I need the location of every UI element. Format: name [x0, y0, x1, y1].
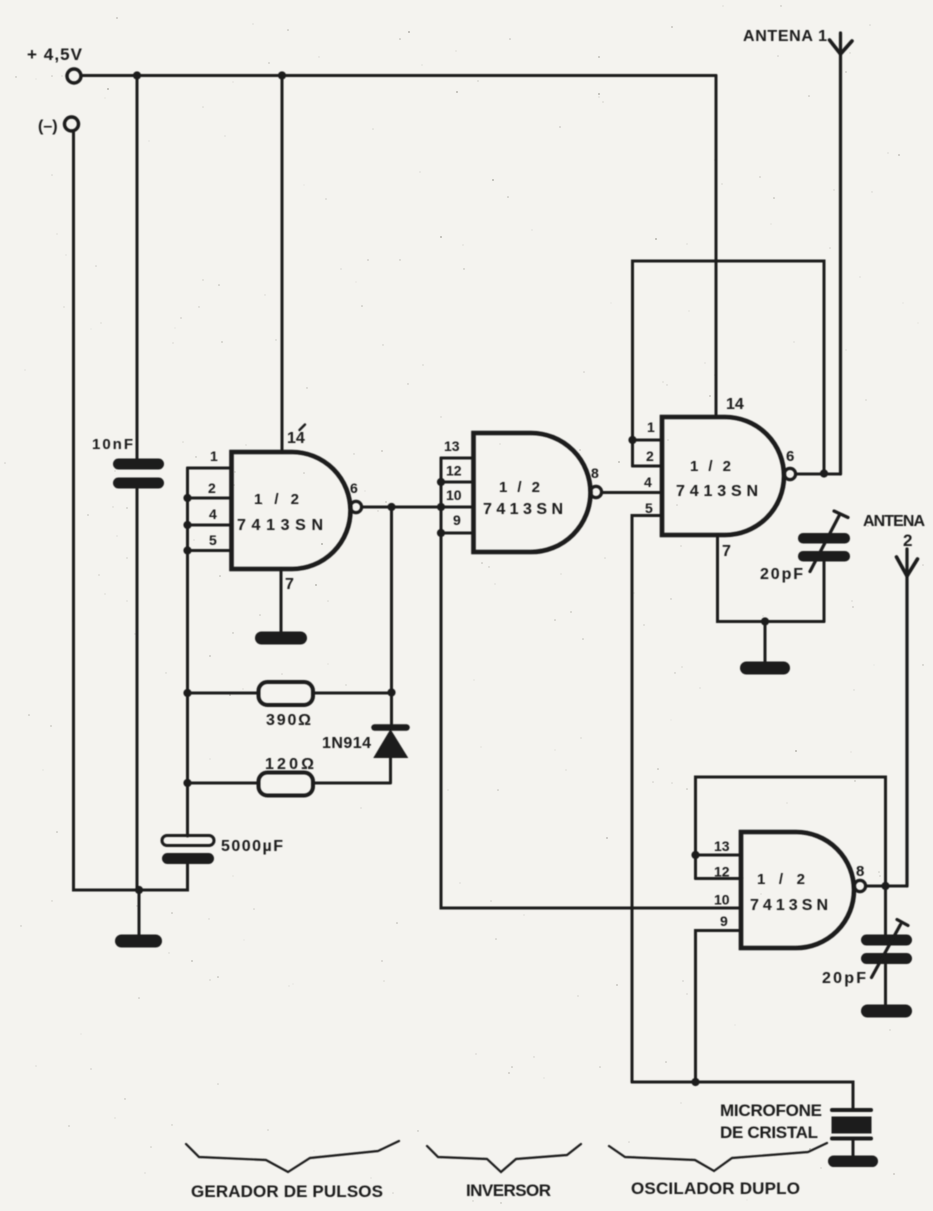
- svg-text:INVERSOR: INVERSOR: [466, 1181, 551, 1200]
- wire 20pF lower to ground: [884, 964, 887, 1005]
- wire U1A pin4 stub: [188, 524, 232, 527]
- resistor 390ohm: [259, 682, 314, 705]
- wire U1A pin5 stub: [188, 549, 232, 552]
- svg-text:13: 13: [714, 838, 730, 854]
- wire feedback rect U1D: [696, 777, 886, 886]
- svg-text:14: 14: [726, 396, 744, 413]
- brace gerador de pulsos: [186, 1141, 399, 1172]
- ground 20pF lower: [861, 1005, 912, 1018]
- ground bottom-left: [115, 935, 162, 948]
- svg-text:9: 9: [720, 913, 728, 929]
- svg-text:DE CRISTAL: DE CRISTAL: [720, 1123, 818, 1142]
- wire (-) down: [74, 131, 141, 890]
- svg-text:1: 1: [210, 448, 218, 464]
- wire U1A out to U1B pin10: [362, 506, 474, 509]
- ground microphone: [828, 1156, 878, 1168]
- wire U1B out to U1C pin4: [602, 491, 662, 494]
- wire to ground U1C: [764, 622, 767, 663]
- wire diode to 120ohm: [188, 757, 391, 783]
- svg-text:4: 4: [209, 506, 217, 522]
- svg-text:1 / 2: 1 / 2: [499, 479, 540, 496]
- node mic junction: [691, 1078, 699, 1086]
- capacitor 20pF upper: [798, 533, 850, 562]
- brace inversor: [427, 1144, 581, 1172]
- wire microphone net: [632, 1082, 853, 1108]
- capacitor 5000uF: [162, 836, 214, 865]
- resistor 120ohm: [259, 773, 314, 796]
- node U1C pin1: [628, 436, 636, 444]
- wire feedback rect U1C top: [633, 261, 825, 474]
- bubble U1B output: [590, 486, 601, 497]
- node out-bus branch: [437, 503, 445, 511]
- svg-text:12: 12: [446, 463, 462, 479]
- wire 390ohm row: [188, 692, 392, 695]
- svg-text:ANTENA 1: ANTENA 1: [743, 28, 827, 45]
- wire bus down to 5000uF: [186, 551, 189, 837]
- svg-text:7413SN: 7413SN: [750, 897, 832, 914]
- terminal +4,5V: [67, 69, 81, 83]
- trimmer arrow 20pF lower: [872, 920, 909, 978]
- wire power rail top: [81, 74, 716, 77]
- nand gate U1B: [474, 433, 591, 552]
- svg-text:7413SN: 7413SN: [483, 501, 567, 518]
- microphone crystal: [832, 1110, 872, 1139]
- svg-text:1 / 2: 1 / 2: [757, 871, 805, 888]
- svg-text:2: 2: [903, 531, 912, 550]
- capacitor 10nF: [113, 459, 164, 489]
- svg-text:13: 13: [444, 438, 460, 454]
- wire U1C pin2 stub: [633, 465, 663, 468]
- svg-text:12: 12: [714, 864, 730, 880]
- svg-text:8: 8: [856, 863, 864, 880]
- nand gate U1C: [662, 417, 784, 535]
- wire U1A input bus: [186, 468, 189, 551]
- svg-text:ANTENA: ANTENA: [863, 513, 925, 530]
- svg-text:120Ω: 120Ω: [265, 756, 314, 773]
- wire to 20pF lower: [884, 886, 887, 935]
- svg-text:(–): (–): [38, 118, 58, 135]
- svg-text:OSCILADOR DUPLO: OSCILADOR DUPLO: [631, 1179, 800, 1198]
- node pin9: [437, 529, 445, 537]
- svg-text:9: 9: [453, 512, 461, 528]
- node rail-10nF: [133, 71, 141, 79]
- node U1D pin13: [691, 851, 699, 859]
- node bus-390: [183, 689, 191, 697]
- wire U1A pin2 stub: [188, 497, 232, 500]
- svg-text:1 / 2: 1 / 2: [254, 491, 299, 508]
- wire U1A pin7: [280, 569, 283, 632]
- node out-diode branch: [387, 503, 395, 511]
- node gnd U1C: [761, 617, 769, 625]
- node bus-120: [183, 779, 191, 787]
- svg-text:7413SN: 7413SN: [676, 483, 762, 500]
- ground U1A pin7: [255, 632, 307, 645]
- svg-text:10: 10: [714, 892, 730, 908]
- svg-text:2: 2: [208, 480, 216, 496]
- bubble U1A output: [350, 501, 361, 512]
- svg-text:MICROFONE: MICROFONE: [720, 1101, 822, 1120]
- wire U1D pin13 stub: [696, 854, 742, 857]
- svg-text:390Ω: 390Ω: [266, 712, 311, 729]
- svg-text:5: 5: [645, 500, 653, 516]
- svg-text:5: 5: [209, 532, 217, 548]
- wire to ground bottom-left: [138, 890, 141, 935]
- wire 20pF to pin7 row: [823, 562, 826, 622]
- trimmer arrow 20pF upper: [810, 511, 848, 572]
- bubble U1D output: [854, 880, 865, 891]
- svg-text:7: 7: [285, 576, 294, 593]
- svg-text:6: 6: [786, 448, 794, 465]
- bubble U1C output: [784, 468, 795, 479]
- node out-cap branch: [820, 469, 828, 477]
- wire U1A pin14: [281, 76, 284, 453]
- nand gate U1A: [232, 452, 351, 569]
- brace oscilador duplo: [609, 1143, 827, 1171]
- svg-text:1: 1: [647, 419, 655, 435]
- svg-text:10: 10: [446, 487, 462, 503]
- wire 5000uF to bottom junction: [139, 864, 188, 890]
- svg-text:10nF: 10nF: [92, 436, 133, 453]
- svg-text:2: 2: [646, 448, 654, 464]
- wire U1D pin12 stub: [696, 877, 742, 880]
- node 390-diode: [387, 688, 395, 696]
- wire U1D pin9 drop: [696, 931, 742, 1083]
- diode 1N914: [375, 728, 407, 758]
- node out-cap2 branch: [881, 882, 889, 890]
- svg-text:7: 7: [722, 543, 731, 560]
- wire U1B bus down to U1D pin10: [441, 533, 741, 908]
- svg-text:8: 8: [591, 465, 599, 481]
- svg-text:+ 4,5V: + 4,5V: [27, 45, 83, 64]
- wire mic to ground: [852, 1140, 855, 1157]
- svg-text:14: 14: [287, 430, 305, 447]
- svg-text:1 / 2: 1 / 2: [690, 458, 731, 475]
- wire 10nF branch lower: [136, 488, 139, 890]
- wire U1D out to antenna2: [866, 885, 907, 888]
- svg-text:4: 4: [644, 474, 652, 490]
- node pin12: [437, 478, 445, 486]
- nand gate U1D: [741, 832, 854, 948]
- wire rail down to U1C pin14: [715, 76, 718, 418]
- ground U1C: [740, 662, 790, 675]
- wire U1C pin1 stub: [633, 439, 663, 442]
- wire U1B pin12 stub: [441, 481, 474, 484]
- svg-text:GERADOR DE PULSOS: GERADOR DE PULSOS: [191, 1182, 383, 1201]
- node pin2: [183, 494, 191, 502]
- wire U1B pin13 stub: [441, 457, 474, 460]
- wire U1C pin7: [718, 535, 825, 622]
- terminal (-): [65, 117, 79, 131]
- node pin4: [183, 521, 191, 529]
- wire 10nF branch upper: [136, 76, 139, 460]
- antenna 2: [905, 549, 908, 886]
- node bottom-left junction: [135, 886, 143, 894]
- wire U1B pin9 stub: [441, 532, 474, 535]
- node rail-pin14: [278, 71, 286, 79]
- svg-text:1N914: 1N914: [322, 735, 371, 752]
- wire U1A pin1 stub: [188, 467, 232, 470]
- wire U1C out to antenna1: [796, 473, 840, 476]
- wire U1B input bus: [440, 458, 443, 533]
- wire U1A out down to diode: [390, 507, 393, 724]
- svg-text:20pF: 20pF: [760, 566, 803, 583]
- wire U1C pin5 drop: [632, 516, 662, 1083]
- antenna 1: [839, 33, 842, 474]
- capacitor 20pF lower: [861, 935, 912, 965]
- svg-text:6: 6: [350, 480, 358, 496]
- svg-text:20pF: 20pF: [822, 970, 866, 987]
- node pin5: [183, 546, 191, 554]
